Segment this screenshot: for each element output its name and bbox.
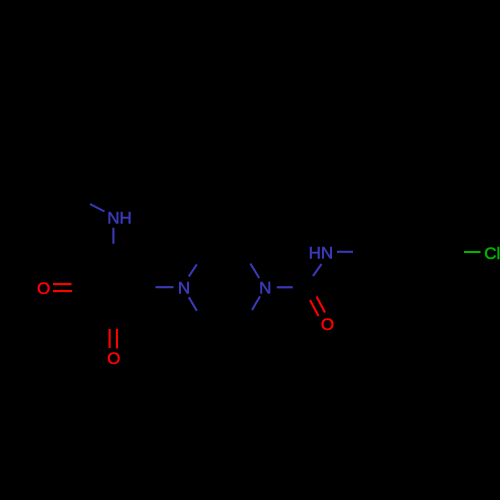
wire: piperazine N1 lower-right ring bond (blue half) [189, 297, 197, 311]
wire: C2=O double bond left (red halves) [53, 283, 72, 285]
svg-text:O: O [321, 315, 334, 334]
wire: piperazine N1 upper-right ring bond (blue half) [189, 264, 197, 276]
wire: C4 to piperazine N1 (blue half) [156, 286, 174, 288]
wire: N4 to carbamoyl carbon (blue half) [277, 286, 293, 288]
wire: HN to phenyl ring (blue half) [337, 251, 353, 253]
svg-text:Cl: Cl [484, 244, 500, 263]
wire: methyl to NH bond (blue half) [90, 204, 105, 212]
wire: HN to carbamoyl carbon (blue half) [313, 264, 322, 276]
svg-text:HN: HN [309, 244, 334, 263]
wire: piperazine N4 lower-left ring bond (blue half) [252, 296, 260, 310]
svg-text:O: O [37, 279, 50, 298]
wire: piperazine N4 upper-left ring bond (blue half) [250, 264, 259, 278]
wire: NH to ring carbon C3 (blue half) [112, 228, 114, 244]
svg-text:N: N [259, 279, 271, 298]
wire: carbamoyl C=O double bond (red halves) [310, 300, 319, 316]
svg-text:O: O [107, 349, 120, 368]
wire: C1=O double bond bottom (red halves) [109, 329, 111, 348]
svg-text:N: N [178, 279, 190, 298]
svg-text:NH: NH [107, 209, 132, 228]
wire: phenyl to Cl bond (green half) [464, 251, 481, 253]
